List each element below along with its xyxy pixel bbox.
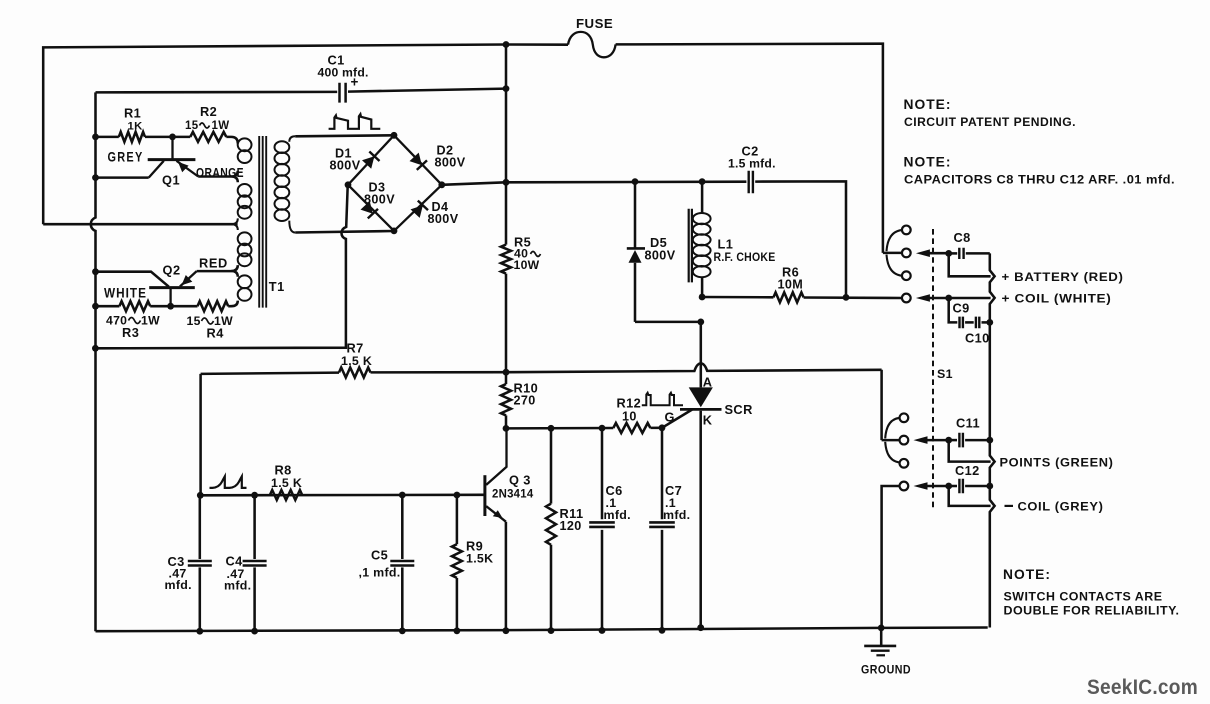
wire coil-grey contact to ground (882, 486, 900, 628)
junction dot rail Q1 collector (92, 174, 99, 181)
note circuit patent pending (904, 97, 1077, 129)
svg-text:1K: 1K (128, 121, 144, 133)
svg-text:+: + (351, 75, 359, 90)
svg-text:800V: 800V (645, 249, 676, 263)
junction dot bridge right node (438, 181, 445, 188)
svg-text:15: 15 (185, 120, 199, 132)
label D4 value (428, 200, 459, 226)
svg-text:RED: RED (199, 255, 228, 270)
capacitor C9 (960, 317, 963, 329)
junction dot battery line (945, 250, 952, 257)
svg-text:CAPACITORS C8 THRU C12 ARF: CAPACITORS C8 THRU C12 ARF. .01 mfd. (904, 173, 1175, 187)
svg-text:10: 10 (622, 410, 637, 424)
wire R10 to gate rail (505, 415, 508, 428)
capacitor C2 (749, 171, 753, 194)
svg-text:+ BATTERY (RED): + BATTERY (RED) (1002, 270, 1124, 284)
junction dot HV rail L1 (699, 178, 706, 185)
switch S1 coil-white contact circle (902, 294, 911, 303)
svg-text:Q 3: Q 3 (509, 473, 531, 488)
label R6 value (778, 265, 804, 292)
wire C9 branch drop (949, 298, 958, 322)
label T1 (269, 279, 285, 294)
wire R3 input from rail (96, 305, 120, 308)
svg-text:mfd.: mfd. (663, 508, 690, 522)
svg-text:S1: S1 (937, 367, 953, 381)
wire coil-white terminal branch (949, 297, 991, 300)
resistor R9 (452, 495, 462, 631)
svg-text:R1: R1 (124, 106, 141, 121)
svg-text:800V: 800V (428, 212, 459, 226)
junction dot choke bottom tie (697, 319, 704, 326)
note capacitors C8 thru C12 (904, 155, 1176, 187)
label C6 value (604, 483, 631, 522)
label R4 value (187, 314, 234, 341)
junction dot rail R3 (92, 303, 99, 310)
label Q2 (163, 263, 181, 278)
svg-text:FUSE: FUSE (576, 16, 613, 31)
label D1 value (330, 147, 361, 173)
junction dot ground rail C6 (599, 627, 606, 634)
resistor R5 (501, 245, 511, 274)
waveform trigger pulses above R12 (642, 393, 683, 406)
junction dot base rail R9 (454, 492, 461, 499)
junction dot right bus C12 (986, 483, 993, 490)
svg-text:1.5 mfd.: 1.5 mfd. (728, 157, 776, 171)
inductor L1 R.F. choke (693, 182, 711, 297)
resistor R12 (613, 423, 650, 433)
junction dot bridge top node (391, 132, 398, 139)
wire points line to C11 (949, 439, 957, 442)
label C4 value (224, 554, 251, 593)
transistor Q1 (148, 137, 199, 178)
wire base rail (200, 494, 485, 497)
junction dot base rail left (197, 492, 204, 499)
switch S1 points contact circles (900, 413, 909, 467)
junction dot right bus C9 C10 (986, 319, 993, 326)
transistor Q3 (485, 428, 507, 630)
label GROUND (861, 663, 911, 677)
label D5 value (645, 235, 676, 263)
wire gate rail (506, 427, 613, 430)
svg-text:C11: C11 (956, 416, 980, 431)
svg-text:1.5 K: 1.5 K (341, 354, 372, 368)
label - COIL (GREY) (1005, 500, 1104, 514)
diode D3 (361, 201, 379, 218)
resistor R2 (190, 132, 226, 142)
wire Q1 collector to rail (96, 176, 149, 179)
junction dot bridge bottom node (391, 228, 398, 235)
label C11 (956, 416, 980, 431)
fuse F1 symbol (568, 32, 616, 57)
wire HV rail from bridge (442, 182, 747, 185)
wire Q1 emitter to ORANGE tap (198, 171, 238, 183)
junction dot right bus C11 (986, 437, 993, 444)
svg-text:T1: T1 (269, 279, 285, 294)
label R8 value (271, 463, 302, 491)
label R2 value (185, 104, 229, 132)
wire bridge diamond (348, 135, 442, 231)
wire R2 to transformer primary top (226, 137, 238, 144)
diode D4 (411, 201, 429, 218)
junction dot top rail x506 (503, 41, 510, 48)
junction dot rail R1 (92, 134, 99, 141)
svg-text:SeekIC.com: SeekIC.com (1087, 675, 1198, 699)
svg-text:C8: C8 (954, 230, 971, 245)
resistor R11 (546, 428, 556, 630)
svg-text:POINTS (GREEN): POINTS (GREEN) (1000, 456, 1114, 470)
wire top supply rail with corner at top-left (43, 44, 880, 225)
svg-text:+ COIL (WHITE): + COIL (WHITE) (1002, 292, 1112, 306)
svg-text:NOTE:: NOTE: (1003, 567, 1051, 582)
wire secondary bottom to bridge (295, 231, 394, 233)
wire feed to points contact (880, 370, 883, 440)
junction dot ground rail C4 (251, 628, 258, 635)
svg-text:COIL (GREY): COIL (GREY) (1018, 500, 1104, 514)
transformer T1 primary winding (232, 138, 252, 300)
junction dot points line (945, 437, 952, 444)
wire left outer loop to transformer center tap (43, 223, 237, 226)
wire C8 to right bus (966, 252, 990, 255)
junction dot left rail return (92, 345, 99, 352)
junction dot Q1 base node (169, 134, 176, 141)
label R7 value (341, 341, 372, 369)
wire bridge left node drop to left rail (hops over secondary wire) (95, 186, 347, 349)
junction dot base rail C5 (399, 492, 406, 499)
wire R6 to coil terminal (804, 296, 902, 299)
label C1 value (318, 53, 369, 90)
wire C9 to C10 (965, 321, 974, 324)
label R11 value (560, 506, 584, 533)
svg-text:Q1: Q1 (162, 173, 180, 188)
svg-text:DOUBLE FOR RELIABILITY.: DOUBLE FOR RELIABILITY. (1004, 604, 1180, 618)
label G gate pin (665, 410, 675, 425)
svg-text:10W: 10W (514, 258, 540, 272)
arrow points line (914, 436, 949, 444)
svg-text:400 mfd.: 400 mfd. (318, 66, 369, 80)
capacitor C1 (340, 83, 346, 103)
label A anode pin (703, 375, 713, 390)
resistor R4 (198, 301, 229, 311)
capacitor C3 (188, 495, 212, 631)
label K cathode pin (703, 413, 713, 428)
junction dot C2 return on coil line (843, 294, 850, 301)
junction dot ground rail Q3 emitter (503, 627, 510, 634)
waveform sawtooth above base rail (210, 476, 247, 488)
label + BATTERY (RED) (1002, 270, 1124, 284)
svg-text:WHITE: WHITE (104, 285, 147, 300)
svg-text:120: 120 (560, 519, 582, 533)
label R5 value (514, 235, 541, 273)
wire C10 to right bus (982, 321, 990, 324)
wire R3 to Q2 base junction (150, 305, 197, 308)
junction dot Q2 base node (167, 303, 174, 310)
resistor R7 (339, 368, 371, 378)
svg-text:SWITCH CONTACTS ARE: SWITCH CONTACTS ARE (1004, 590, 1163, 604)
diode D2 (410, 153, 428, 170)
svg-text:10M: 10M (778, 278, 804, 292)
wire inner left rail (with hop over center-tap wire) (91, 92, 96, 631)
wire R7 rail right segment (371, 363, 882, 372)
arrow coil-grey line (914, 482, 949, 490)
wire R1 to R2 segment (145, 136, 190, 139)
wire C1 rail right segment (348, 89, 506, 92)
resistor R3 (119, 301, 150, 311)
junction dot coil-white line (945, 295, 952, 302)
svg-text:C12: C12 (955, 463, 980, 478)
junction dot bridge left node (345, 181, 352, 188)
label SCR (725, 402, 753, 417)
svg-text:800V: 800V (435, 156, 466, 170)
junction dot ground rail C3 (196, 628, 203, 635)
wire R12 to gate node (650, 427, 662, 430)
svg-text:800V: 800V (330, 159, 361, 173)
svg-text:1W: 1W (141, 313, 160, 327)
waveform square pulses above bridge (329, 114, 381, 129)
svg-text:R3: R3 (122, 325, 139, 340)
svg-text:C5: C5 (371, 548, 388, 563)
wire battery terminal branch (949, 253, 991, 276)
label D3 value (364, 181, 395, 207)
wire R7 rail left segment (201, 373, 339, 374)
wire coil-grey terminal branch (949, 486, 991, 506)
svg-text:SCR: SCR (725, 402, 753, 417)
wire battery line to C8 (949, 252, 958, 255)
junction dot gate rail x506 (503, 425, 510, 432)
svg-text:K: K (703, 413, 713, 428)
svg-text:mfd.: mfd. (224, 579, 251, 593)
svg-text:GREY: GREY (108, 150, 144, 165)
svg-text:1.5K: 1.5K (466, 552, 493, 566)
label C12 (955, 463, 980, 478)
label C5 value (359, 548, 401, 580)
transformer T1 secondary winding (275, 136, 296, 232)
junction dot ground rail C5 (399, 628, 406, 635)
junction dot L1 bottom node (699, 294, 706, 301)
svg-text:1W: 1W (212, 120, 230, 132)
label C8 (954, 230, 971, 245)
wire R1 input from rail (96, 136, 119, 139)
junction dot rail Q2 collector (92, 268, 99, 275)
resistor R1 (119, 132, 145, 142)
junction dot ground rail R11 (548, 627, 555, 634)
svg-text:R4: R4 (207, 325, 225, 340)
wire Q2 collector from rail (96, 272, 169, 287)
label R1 value (124, 106, 143, 133)
switch S1 coil-grey contact circle (900, 482, 909, 491)
wire D5 anode to choke node (635, 321, 701, 324)
inductor L1 core bar (689, 209, 692, 283)
switch S1 points contact fork (882, 418, 900, 463)
label L1 value (714, 237, 776, 265)
wire points terminal branch (949, 440, 991, 462)
svg-text:15: 15 (187, 314, 201, 328)
junction dot HV rail x506 (503, 179, 510, 186)
capacitor C10 (976, 317, 979, 329)
junction dot ground rail SCR cathode (697, 624, 704, 631)
label FUSE (576, 16, 613, 31)
svg-text:mfd.: mfd. (165, 578, 192, 592)
resistor R10 (501, 384, 511, 415)
label D2 value (435, 144, 466, 170)
capacitor C5 (390, 495, 414, 631)
label POINTS (GREEN) (1000, 456, 1114, 470)
capacitor C4 (243, 495, 267, 631)
wire right bus with hops (990, 253, 995, 627)
junction dot ground rail ground tap (878, 625, 885, 632)
junction dot HV rail D5 (632, 178, 639, 185)
svg-text:ORANGE: ORANGE (196, 166, 244, 180)
label C2 value (728, 144, 776, 171)
label Q3 value (492, 473, 534, 501)
label S1 (937, 367, 953, 381)
wire R7 left drop (199, 374, 202, 495)
svg-text:NOTE:: NOTE: (904, 155, 952, 170)
label C7 value (663, 483, 690, 522)
wire feed to battery contact (880, 44, 883, 253)
wire C12 to right bus (965, 485, 990, 488)
note switch contacts (1003, 567, 1180, 618)
wire gate lead to SCR (662, 410, 692, 428)
junction dot gate rail C6 (599, 425, 606, 432)
svg-text:R.F. CHOKE: R.F. CHOKE (714, 250, 776, 264)
wire C1 rail left segment (96, 91, 338, 94)
wire choke bottom to R6 (702, 296, 773, 299)
svg-text:,1 mfd.: ,1 mfd. (359, 566, 401, 580)
junction dot coil-grey line (945, 483, 952, 490)
wire ground rail (96, 628, 988, 632)
label C10 (965, 331, 990, 346)
capacitor C11 (959, 433, 963, 448)
svg-text:270: 270 (514, 394, 536, 408)
wire coil-grey line to C12 (949, 485, 957, 488)
dashed switch S1 line (932, 229, 934, 511)
arrow coil-white line (916, 294, 949, 302)
svg-text:R2: R2 (200, 104, 217, 119)
svg-text:A: A (703, 375, 713, 390)
ground symbol (864, 628, 896, 655)
junction dot gate rail R11 (548, 425, 555, 432)
wire C11 to right bus (965, 439, 990, 442)
junction dot C1 rail x506 (503, 85, 510, 92)
wire R4 to transformer primary bottom (228, 301, 238, 307)
junction dot ground rail C7 (659, 627, 666, 634)
capacitor C12 (959, 479, 963, 494)
wire secondary top to bridge (295, 135, 394, 136)
junction dot ground rail R9 (454, 627, 461, 634)
resistor R8 (270, 490, 302, 500)
label GREY wire (108, 150, 144, 165)
label ORANGE tap (196, 166, 244, 180)
wire choke node down to SCR anode rail (700, 322, 703, 388)
label RED tap (199, 255, 228, 270)
svg-text:C10: C10 (965, 331, 990, 346)
svg-text:R12: R12 (617, 396, 642, 411)
svg-text:2N3414: 2N3414 (492, 487, 534, 501)
label + COIL (WHITE) (1002, 292, 1112, 306)
svg-text:GROUND: GROUND (861, 663, 911, 677)
capacitor C7 (649, 428, 675, 631)
svg-text:C9: C9 (953, 301, 970, 316)
svg-text:1.5 K: 1.5 K (271, 476, 302, 490)
wire HV rail after C2 (755, 181, 846, 297)
switch S1 battery contact fork (883, 230, 902, 276)
resistor R6 (773, 292, 803, 302)
svg-text:mfd.: mfd. (604, 508, 631, 522)
svg-text:800V: 800V (364, 193, 395, 207)
label C3 value (165, 554, 192, 592)
label Q1 (162, 173, 180, 188)
SCR thyristor (680, 387, 722, 627)
junction dot R7 rail x506 (503, 369, 510, 376)
arrow battery line (916, 249, 949, 257)
junction dot gate node (659, 424, 666, 431)
label C9 (953, 301, 970, 316)
transformer T1 core (259, 136, 266, 308)
label R10 value (514, 381, 539, 408)
svg-text:Q2: Q2 (163, 263, 181, 278)
capacitor C6 (589, 428, 615, 630)
watermark SeekIC.com (1087, 675, 1198, 699)
label R12 value (617, 396, 642, 424)
wire main vertical bus x506 upper (505, 45, 508, 245)
label WHITE wire (104, 285, 147, 300)
wire D5 branch from HV rail (634, 182, 637, 249)
transistor Q2 (149, 271, 197, 306)
svg-text:NOTE:: NOTE: (904, 97, 952, 112)
label R9 value (466, 539, 493, 566)
diode D5 (627, 248, 645, 322)
label R3 value (106, 313, 160, 340)
svg-text:CIRCUIT PATENT PENDING.: CIRCUIT PATENT PENDING. (904, 115, 1076, 129)
junction dot base rail C4 (251, 492, 258, 499)
switch S1 battery contact circles (902, 226, 911, 281)
capacitor C8 (959, 248, 963, 259)
wire Q2 emitter to RED tap (197, 265, 238, 277)
diode D1 (362, 152, 380, 169)
wire main vertical bus x506 middle (505, 274, 508, 385)
